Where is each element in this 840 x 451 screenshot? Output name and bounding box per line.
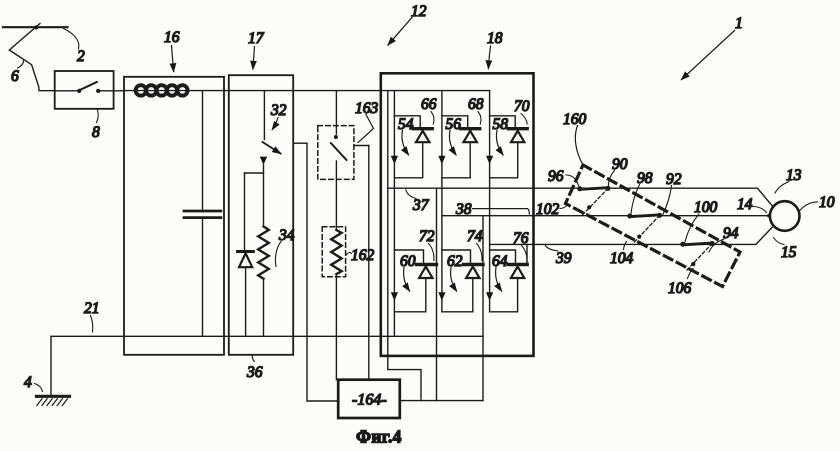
control wire 163 down to unit 164	[368, 146, 370, 380]
thyristor U60 triangle	[419, 267, 432, 278]
switch 98 contacts	[627, 214, 632, 219]
svg-text:72: 72	[419, 228, 435, 245]
box 18 (rectifier-inverter block)	[381, 73, 534, 356]
thyristor U54 cathode bar	[413, 127, 432, 130]
svg-text:104: 104	[610, 250, 634, 267]
gate bus below box18	[400, 400, 483, 402]
svg-text:38: 38	[455, 201, 472, 218]
thyristor U58 anode wire + return elbow	[490, 142, 518, 178]
svg-text:32: 32	[270, 102, 287, 119]
svg-text:92: 92	[666, 171, 682, 188]
switch 32 fixed contact arrowhead	[260, 157, 267, 165]
svg-text:102: 102	[536, 201, 560, 218]
switch 163 lower wire to resistor 162	[335, 161, 337, 230]
switch 163 upper wire	[335, 91, 337, 134]
svg-text:62: 62	[447, 253, 463, 270]
switch 90 linkage dash	[582, 188, 608, 215]
svg-text:74: 74	[467, 228, 483, 245]
thyristor U58: feed tap	[490, 116, 516, 127]
svg-text:8: 8	[92, 124, 100, 141]
switch 100 contacts	[680, 242, 685, 247]
reverser dashed frame 106	[566, 165, 741, 287]
svg-text:36: 36	[246, 364, 263, 381]
resistor 162 lower wire to unit 164	[335, 275, 337, 380]
catenary contact wire 2	[3, 26, 68, 28]
thyristor U62 cathode bar	[464, 263, 484, 266]
node junction wire to diode branch	[245, 172, 264, 174]
svg-text:Фиг.4: Фиг.4	[356, 427, 402, 447]
diode VD lower wire	[245, 267, 247, 336]
svg-text:4: 4	[24, 374, 32, 391]
svg-text:163: 163	[355, 100, 379, 117]
svg-text:96: 96	[548, 168, 564, 185]
svg-text:18: 18	[487, 30, 503, 47]
svg-text:100: 100	[694, 199, 718, 216]
box18 inner-left wire	[387, 91, 389, 189]
switch 163 contact dot	[334, 135, 338, 139]
svg-text:21: 21	[84, 300, 100, 317]
thyristor branch wire A	[393, 91, 395, 337]
drop wire line39 to U64	[526, 244, 528, 262]
resistor 34 lower wire	[263, 279, 265, 337]
svg-text:2: 2	[77, 48, 85, 65]
svg-text:15: 15	[781, 244, 797, 261]
thyristor U56 triangle	[464, 131, 477, 142]
thyristor U64 anode wire + return elbow	[490, 278, 518, 312]
thyristor U62 triangle	[466, 267, 479, 278]
svg-text:39: 39	[555, 250, 572, 267]
switch 32 upper wire	[263, 91, 265, 140]
switch 90 contacts	[577, 186, 582, 191]
drop wire line38 to U62	[482, 216, 484, 401]
svg-text:58: 58	[493, 116, 509, 133]
svg-text:12: 12	[411, 3, 427, 20]
label 162	[347, 252, 352, 254]
svg-text:94: 94	[723, 225, 739, 242]
svg-text:14: 14	[737, 196, 753, 213]
svg-text:10: 10	[819, 194, 835, 211]
control wire down to unit 164	[307, 143, 338, 401]
svg-text:68: 68	[468, 96, 484, 113]
dashed box 162 (brake resistor)	[322, 227, 345, 277]
switch S8 blade and contacts	[55, 90, 79, 92]
switch 100 blade	[683, 243, 712, 245]
thyristor U54 triangle	[416, 131, 429, 142]
ground 4 bar	[37, 395, 70, 398]
drop wire line37 to U60	[436, 188, 438, 400]
thyristor U62 anode wire + return elbow	[442, 278, 473, 312]
svg-text:17: 17	[248, 30, 265, 47]
capacitor branch wire	[202, 91, 204, 210]
pantograph contact dot	[34, 25, 38, 29]
thyristor branch wire B	[441, 91, 443, 312]
svg-text:-164-: -164-	[352, 392, 387, 409]
thyristor U54: feed tap	[394, 116, 420, 127]
svg-text:60: 60	[400, 253, 416, 270]
dashed box 163 (bypass switch)	[318, 126, 354, 180]
switch 98 linkage dash	[633, 215, 660, 243]
thyristor U58 cathode bar	[508, 127, 527, 130]
gate arrow A top	[391, 156, 398, 164]
switch 163 control stub	[354, 145, 369, 147]
wire switch32 to resistor 34	[263, 165, 265, 227]
thyristor U54 anode wire + return elbow	[394, 142, 422, 178]
resistor 34 zigzag	[258, 227, 269, 279]
gate arrow A bottom	[391, 292, 398, 300]
thyristor U56 cathode bar	[461, 127, 480, 130]
diode VD triangle	[239, 253, 252, 267]
inductor L16 coil	[136, 85, 188, 95]
switch 98 blade	[630, 215, 660, 217]
thyristor U60: feed tap	[394, 250, 423, 263]
switch 163 blade	[331, 143, 347, 160]
svg-text:56: 56	[446, 116, 462, 133]
output line 39 to motor	[490, 227, 773, 244]
switch 90 blade	[580, 188, 608, 190]
capacitor lower wire	[202, 219, 204, 336]
thyristor U58 triangle	[511, 131, 524, 142]
pantograph 6 arms	[9, 24, 54, 91]
svg-text:160: 160	[563, 111, 587, 128]
main top bus (catenary to rectifier)	[124, 90, 490, 92]
thyristor U56 anode wire + return elbow	[442, 142, 470, 178]
stub box17 to control line	[293, 142, 307, 144]
svg-text:76: 76	[513, 230, 529, 247]
label 54 arrow	[402, 131, 409, 155]
svg-text:66: 66	[421, 96, 437, 113]
thyristor U56: feed tap	[442, 116, 468, 127]
gate staircase wire left	[388, 188, 421, 400]
output line 38 / wire 102 to motor	[442, 215, 770, 217]
gate arrow C bottom	[486, 292, 493, 300]
switch S8 box	[55, 71, 114, 109]
thyristor U60 anode wire + return elbow	[394, 278, 425, 312]
svg-text:6: 6	[11, 68, 19, 85]
svg-text:64: 64	[492, 253, 508, 270]
thyristor branch wire C	[489, 91, 491, 312]
output line 37 / wire 96 to motor	[388, 188, 773, 206]
motor 10 circle	[770, 201, 800, 231]
gate arrow B bottom	[438, 292, 445, 300]
svg-text:54: 54	[398, 116, 414, 133]
box 17 (chopper block)	[229, 75, 293, 355]
box 16 (input filter)	[124, 77, 224, 355]
gate arrow B top	[438, 156, 445, 164]
svg-text:37: 37	[412, 197, 430, 214]
wire to ground	[50, 336, 52, 395]
ground 4 hatching	[37, 399, 68, 406]
thyristor U64 triangle	[511, 267, 524, 278]
diode VD upper wire	[244, 173, 246, 250]
svg-text:162: 162	[351, 247, 375, 264]
switch 100 linkage dash	[686, 244, 713, 272]
svg-text:16: 16	[164, 29, 180, 46]
diode VD cathode bar	[238, 250, 254, 253]
switch 32 blade with arrow	[263, 142, 281, 154]
control unit 164 box	[338, 380, 400, 418]
capacitor C plates	[184, 210, 221, 213]
gate arrow C top	[486, 156, 493, 164]
thyristor U60 cathode bar	[417, 263, 437, 266]
svg-text:106: 106	[668, 280, 692, 297]
node wire2 motor junction	[767, 214, 770, 217]
svg-text:70: 70	[514, 98, 530, 115]
earth return wire 21	[51, 335, 483, 337]
thyristor U64: feed tap	[490, 250, 516, 263]
svg-text:1: 1	[735, 15, 743, 32]
resistor 162 zigzag	[331, 230, 341, 274]
thyristor U62: feed tap	[442, 250, 471, 263]
thyristor U64 cathode bar	[508, 263, 527, 266]
